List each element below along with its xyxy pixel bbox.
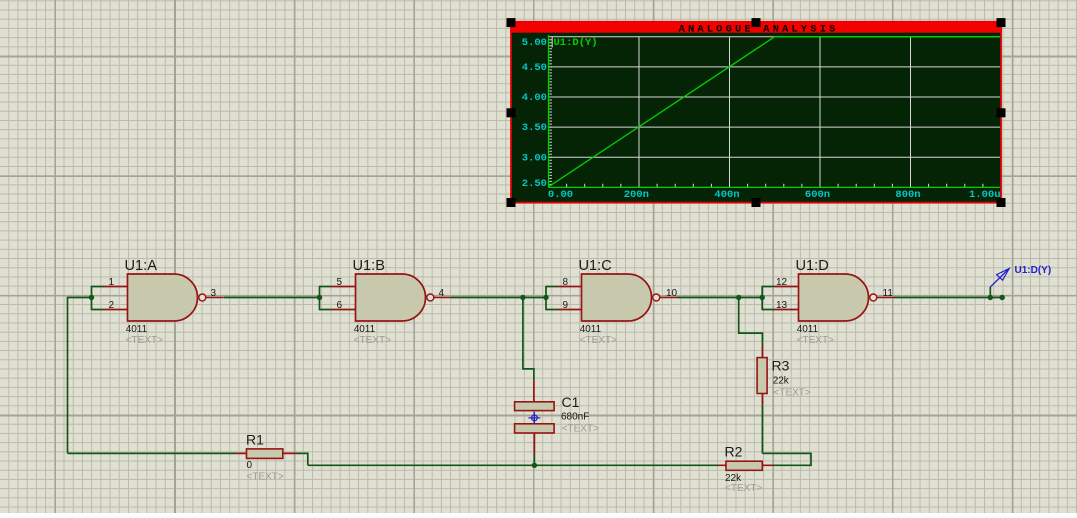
U1:B output bubble [427, 294, 434, 301]
wire U1:A input feed [68, 297, 92, 299]
svg-text:<TEXT>: <TEXT> [580, 335, 617, 346]
svg-text:4.50: 4.50 [522, 62, 547, 74]
U1:A body [128, 274, 198, 321]
svg-text:R1: R1 [246, 432, 264, 448]
svg-text:U1:D(Y): U1:D(Y) [554, 37, 598, 49]
svg-text:9: 9 [563, 300, 569, 311]
svg-text:<TEXT>: <TEXT> [247, 471, 284, 482]
wire U1:C out to U1:D [677, 297, 762, 299]
svg-text:3: 3 [211, 288, 217, 299]
svg-text:4011: 4011 [354, 324, 376, 335]
C1 pins [533, 381, 536, 455]
graph y label 4.50 [522, 62, 547, 74]
svg-text:5: 5 [337, 277, 343, 288]
svg-text:10: 10 [666, 288, 678, 299]
svg-text:4011: 4011 [126, 324, 148, 335]
svg-text:U1:C: U1:C [579, 258, 612, 274]
C1 origin marker [528, 412, 540, 424]
svg-text:4.00: 4.00 [522, 92, 547, 104]
wire U1:D input tie [762, 286, 774, 311]
wire branch to C1 top [523, 298, 534, 381]
svg-text:R3: R3 [772, 357, 790, 373]
junction U1:C inputs [543, 295, 548, 300]
NAND gate U1:D (4011) [775, 258, 895, 346]
svg-text:12: 12 [776, 277, 788, 288]
wire U1:A input tie [92, 286, 104, 311]
NAND gate U1:B (4011) [332, 258, 452, 346]
NAND gate U1:C (4011) [558, 258, 678, 346]
svg-text:0.00: 0.00 [548, 189, 573, 201]
graph y label 5.00 [522, 37, 547, 49]
svg-text:13: 13 [776, 300, 788, 311]
svg-text:<TEXT>: <TEXT> [126, 335, 163, 346]
svg-text:600n: 600n [805, 189, 830, 201]
svg-text:3.50: 3.50 [522, 122, 547, 134]
junction U1:D inputs [760, 295, 765, 300]
svg-text:5.00: 5.00 [522, 37, 547, 49]
svg-text:U1:A: U1:A [125, 258, 158, 274]
svg-text:680nF: 680nF [561, 412, 589, 423]
U1:B output pin 4 [434, 297, 451, 299]
graph y label 4.00 [522, 92, 547, 104]
C1 top plate [515, 402, 555, 411]
svg-text:<TEXT>: <TEXT> [562, 423, 599, 434]
R1 body [247, 449, 283, 459]
wire U1:C input tie [546, 286, 558, 311]
R1 pins [236, 452, 297, 454]
voltage probe U1:D(Y) [990, 265, 1051, 287]
graph axes [549, 35, 1001, 187]
svg-text:3.00: 3.00 [522, 152, 547, 164]
U1:C input pins 8,9 [558, 287, 582, 310]
selection handles [507, 18, 1006, 207]
graph y label 3.50 [522, 122, 547, 134]
resistor R2 (22k) [718, 443, 774, 494]
U1:C output bubble [653, 294, 660, 301]
U1:C body [582, 274, 652, 321]
svg-text:4011: 4011 [797, 324, 819, 335]
svg-text:0: 0 [247, 460, 253, 471]
graph y label 2.50 [522, 178, 547, 190]
U1:A output pin 3 [206, 297, 223, 299]
svg-text:200n: 200n [624, 189, 649, 201]
svg-text:11: 11 [883, 288, 894, 299]
svg-text:4: 4 [439, 288, 445, 299]
svg-text:1.00u: 1.00u [969, 189, 1001, 201]
graph x labels [548, 189, 1001, 201]
junction net end [1000, 295, 1005, 300]
svg-text:U1:B: U1:B [353, 258, 385, 274]
junction probe node [988, 295, 993, 300]
junction C1 branch [520, 295, 525, 300]
R3 pins [761, 345, 763, 405]
U1:A input pins 1,2 [104, 287, 128, 310]
U1:D body [799, 274, 869, 321]
U1:A output bubble [199, 294, 206, 301]
wire C1 bottom to net [533, 455, 535, 466]
resistor R3 (22k) [757, 345, 811, 405]
svg-text:2: 2 [109, 300, 115, 311]
wire U1:A out to U1:B [224, 297, 320, 299]
C1 bottom plate [515, 424, 555, 433]
graph grid lines [549, 37, 1001, 188]
graph panel: ANALOGUE ANALYSIS [510, 22, 1002, 203]
wire probe stem [989, 287, 991, 298]
junction U1:A inputs [89, 295, 94, 300]
svg-text:2.50: 2.50 [522, 178, 547, 190]
R2 pins [718, 464, 774, 466]
U1:B body [356, 274, 426, 321]
svg-text:8: 8 [563, 277, 569, 288]
junction R3 branch [736, 295, 741, 300]
wire bottom left to R1 [68, 452, 237, 454]
U1:B input pins 5,6 [332, 287, 356, 310]
graph trace U1:D(Y) [549, 37, 1001, 187]
svg-text:6: 6 [337, 300, 343, 311]
U1:C output pin 10 [660, 297, 677, 299]
wire U1:B out to U1:C [451, 297, 546, 299]
svg-text:<TEXT>: <TEXT> [725, 483, 762, 494]
svg-text:<TEXT>: <TEXT> [797, 335, 834, 346]
wire U1:D out to probe [894, 297, 1002, 299]
junction U1:B inputs [317, 295, 322, 300]
svg-text:<TEXT>: <TEXT> [774, 388, 811, 399]
R2 body [726, 461, 762, 470]
wire bottom net to R2 [308, 464, 718, 466]
R3 body [757, 358, 767, 394]
junction C1 bottom net [532, 463, 537, 468]
svg-text:4011: 4011 [580, 324, 602, 335]
svg-text:U1:D: U1:D [796, 258, 829, 274]
svg-text:1: 1 [109, 277, 115, 288]
svg-text:800n: 800n [895, 189, 920, 201]
wire R3 to R2 zigzag [762, 453, 811, 465]
graph y label 3.00 [522, 152, 547, 164]
svg-text:<TEXT>: <TEXT> [354, 335, 391, 346]
wire R1 right jog down [297, 453, 308, 465]
U1:D input pins 12,13 [775, 287, 799, 310]
wire R3 bottom vertical [761, 405, 763, 454]
U1:D output bubble [870, 294, 877, 301]
svg-text:22k: 22k [773, 376, 790, 387]
svg-text:R2: R2 [725, 443, 743, 459]
svg-text:U1:D(Y): U1:D(Y) [1015, 265, 1052, 276]
graph legend U1:D(Y) [552, 37, 597, 49]
U1:D output pin 11 [877, 297, 894, 299]
svg-text:C1: C1 [562, 394, 580, 410]
wire feedback left vertical [67, 297, 69, 454]
resistor R1 (0) [236, 432, 297, 483]
wire branch to R3 top [739, 298, 763, 346]
svg-text:400n: 400n [714, 189, 739, 201]
NAND gate U1:A (4011) [104, 258, 224, 346]
wire U1:B input tie [320, 286, 332, 311]
capacitor C1 (680nF) [515, 381, 599, 455]
